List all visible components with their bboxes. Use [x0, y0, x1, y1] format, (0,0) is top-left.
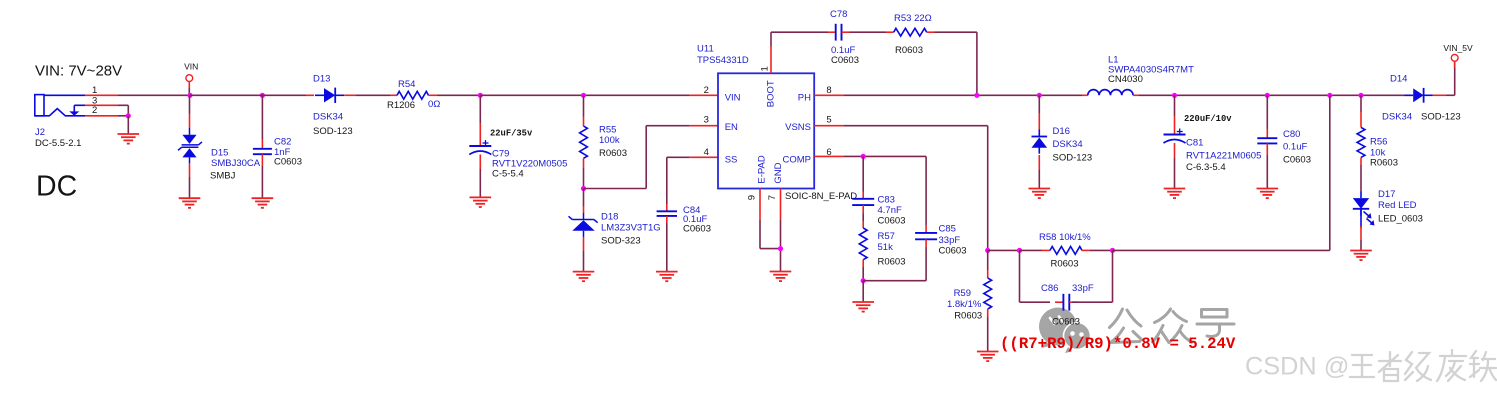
svg-text:R0603: R0603: [599, 148, 627, 159]
svg-text:R55: R55: [599, 124, 616, 135]
svg-text:BOOT: BOOT: [766, 80, 777, 107]
svg-text:TPS54331D: TPS54331D: [697, 55, 749, 66]
svg-text:R0603: R0603: [878, 257, 906, 268]
svg-text:LM3Z3V3T1G: LM3Z3V3T1G: [601, 223, 661, 234]
svg-text:4.7nF: 4.7nF: [878, 205, 902, 216]
svg-text:R56: R56: [1370, 137, 1387, 148]
svg-text:SOD-123: SOD-123: [313, 126, 353, 137]
svg-text:R1206: R1206: [387, 100, 415, 111]
svg-text:VIN: VIN: [725, 93, 741, 104]
svg-text:C85: C85: [939, 224, 956, 235]
svg-text:SMBJ30CA: SMBJ30CA: [211, 158, 261, 169]
svg-text:D14: D14: [1390, 74, 1407, 85]
svg-text:GND: GND: [773, 162, 784, 183]
svg-text:R57: R57: [878, 231, 895, 242]
svg-text:SOD-123: SOD-123: [1053, 153, 1093, 164]
svg-text:R0603: R0603: [1051, 259, 1079, 270]
svg-text:2: 2: [704, 85, 709, 96]
svg-text:R53 22Ω: R53 22Ω: [894, 13, 932, 24]
svg-text:D16: D16: [1053, 126, 1070, 137]
svg-text:SS: SS: [725, 154, 738, 165]
svg-text:5: 5: [826, 114, 831, 125]
svg-text:4: 4: [704, 147, 709, 158]
svg-text:0Ω: 0Ω: [428, 99, 440, 110]
svg-text:R58 10k/1%: R58 10k/1%: [1039, 232, 1091, 243]
svg-text:E-PAD: E-PAD: [757, 155, 768, 183]
svg-text:R0603: R0603: [1370, 158, 1398, 169]
svg-text:((R7+R9)/R9)*0.8V = 5.24V: ((R7+R9)/R9)*0.8V = 5.24V: [1000, 335, 1236, 353]
svg-text:51k: 51k: [878, 242, 894, 253]
svg-text:D13: D13: [313, 74, 330, 85]
svg-text:VSNS: VSNS: [785, 122, 811, 133]
svg-text:DC-5.5-2.1: DC-5.5-2.1: [35, 138, 81, 149]
svg-text:1: 1: [760, 66, 771, 71]
svg-text:C0603: C0603: [1283, 154, 1311, 165]
svg-text:DSK34: DSK34: [1053, 139, 1083, 150]
svg-text:2: 2: [92, 105, 97, 116]
svg-text:PH: PH: [798, 93, 811, 104]
svg-text:9: 9: [747, 195, 758, 200]
svg-text:C0603: C0603: [683, 223, 711, 234]
svg-text:CN4030: CN4030: [1108, 74, 1143, 85]
svg-text:C0603: C0603: [878, 215, 906, 226]
svg-text:C80: C80: [1283, 129, 1300, 140]
svg-text:D17: D17: [1378, 189, 1395, 200]
svg-text:D15: D15: [211, 148, 228, 159]
svg-text:C81: C81: [1186, 138, 1203, 149]
svg-text:CSDN @: CSDN @: [1245, 353, 1349, 381]
svg-text:J2: J2: [35, 127, 45, 138]
svg-text:R0603: R0603: [895, 45, 923, 56]
svg-text:VIN: 7V~28V: VIN: 7V~28V: [35, 62, 122, 79]
svg-text:EN: EN: [725, 122, 738, 133]
svg-text:7: 7: [767, 195, 778, 200]
svg-text:3: 3: [704, 114, 709, 125]
svg-text:C78: C78: [830, 9, 847, 20]
svg-text:220uF/10v: 220uF/10v: [1184, 114, 1232, 124]
svg-text:0.1uF: 0.1uF: [1283, 141, 1307, 152]
svg-text:C86: C86: [1041, 283, 1058, 294]
svg-text:R0603: R0603: [954, 310, 982, 321]
svg-text:VIN: VIN: [184, 62, 198, 72]
svg-text:DC: DC: [36, 171, 77, 203]
svg-text:SMBJ: SMBJ: [210, 171, 236, 182]
svg-text:Red LED: Red LED: [1378, 200, 1417, 211]
svg-text:33pF: 33pF: [1072, 283, 1094, 294]
svg-text:C-6.3-5.4: C-6.3-5.4: [1186, 162, 1226, 173]
svg-text:SOIC-8N_E-PAD: SOIC-8N_E-PAD: [785, 191, 857, 202]
svg-text:DSK34: DSK34: [1382, 112, 1412, 123]
svg-text:100k: 100k: [599, 135, 620, 146]
svg-text:RVT1A221M0605: RVT1A221M0605: [1186, 151, 1261, 162]
svg-text:22uF/35v: 22uF/35v: [490, 129, 533, 139]
svg-text:DSK34: DSK34: [313, 112, 343, 123]
svg-text:U11: U11: [697, 44, 714, 55]
svg-text:SOD-123: SOD-123: [1421, 112, 1461, 123]
svg-text:VIN_5V: VIN_5V: [1443, 43, 1473, 53]
svg-text:33pF: 33pF: [939, 235, 961, 246]
svg-text:C0603: C0603: [831, 55, 859, 66]
svg-text:C0603: C0603: [1052, 317, 1080, 328]
svg-text:C0603: C0603: [939, 246, 967, 257]
svg-text:C83: C83: [878, 194, 895, 205]
svg-text:R54: R54: [398, 79, 415, 90]
svg-text:R59: R59: [954, 288, 971, 299]
svg-text:C0603: C0603: [274, 157, 302, 168]
svg-text:COMP: COMP: [783, 154, 812, 165]
svg-text:LED_0603: LED_0603: [1378, 214, 1423, 225]
svg-text:1.8k/1%: 1.8k/1%: [947, 299, 982, 310]
svg-text:C-5-5.4: C-5-5.4: [492, 169, 524, 180]
svg-text:D18: D18: [601, 212, 618, 223]
svg-text:SOD-323: SOD-323: [601, 235, 641, 246]
